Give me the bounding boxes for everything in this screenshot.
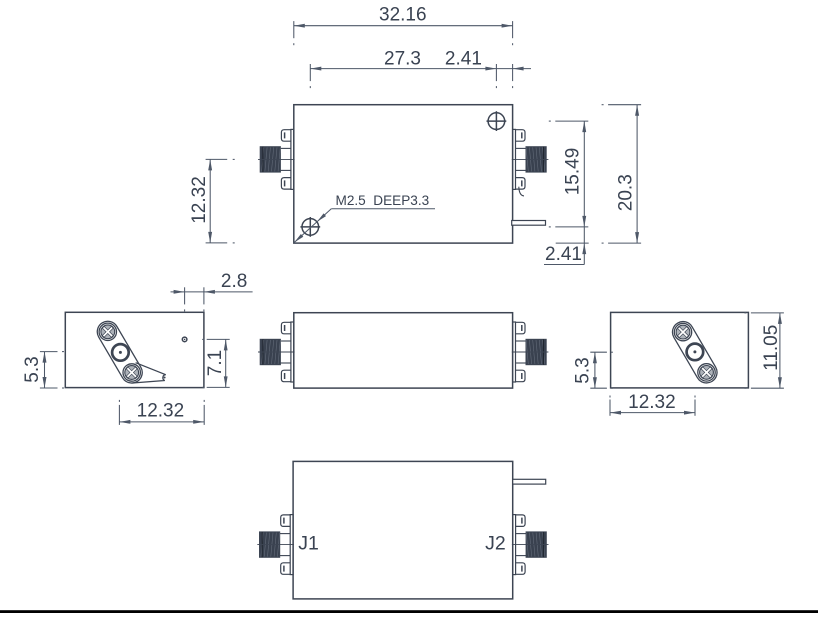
svg-text:J1: J1 bbox=[298, 532, 319, 554]
screw bottom (left side view) bbox=[123, 363, 141, 381]
dimension 20.3 bbox=[602, 105, 642, 243]
dimension 12.32 (top view) bbox=[189, 159, 235, 243]
svg-text:32.16: 32.16 bbox=[379, 4, 427, 25]
dimension 12.32 (left view) bbox=[119, 400, 204, 425]
svg-text:12.32: 12.32 bbox=[628, 392, 676, 413]
connector J2 (top view right) bbox=[512, 129, 549, 196]
svg-text:2.41: 2.41 bbox=[445, 49, 482, 70]
dimension 2.41 (right, vertical) bbox=[544, 227, 589, 265]
bottom view body bbox=[293, 461, 513, 599]
pin (top view) bbox=[512, 221, 546, 226]
connector J1 (bottom view) bbox=[257, 515, 294, 575]
bracket outline (right side view) bbox=[672, 322, 717, 383]
connector J2 (bottom view) bbox=[512, 515, 549, 575]
boss (left side view) bbox=[112, 344, 129, 361]
left side view body bbox=[65, 312, 204, 387]
svg-text:2.41: 2.41 bbox=[545, 244, 582, 265]
screw top (right side view) bbox=[674, 323, 692, 341]
pin (bottom view) bbox=[513, 479, 546, 484]
pin hole (left side view) bbox=[182, 337, 187, 342]
dimension 15.49 bbox=[549, 121, 589, 227]
dimension 32.16 bbox=[294, 4, 513, 45]
bracket outline (left side view) bbox=[97, 321, 142, 383]
bracket arm (left side view) bbox=[133, 363, 166, 383]
dimension 5.3 (right view) bbox=[573, 352, 613, 388]
svg-text:27.3: 27.3 bbox=[384, 49, 421, 70]
svg-text:M2.5 DEEP3.3: M2.5 DEEP3.3 bbox=[336, 193, 430, 208]
svg-text:5.3: 5.3 bbox=[573, 357, 594, 383]
svg-text:12.32: 12.32 bbox=[189, 176, 210, 224]
right side view body bbox=[611, 312, 749, 388]
top view body bbox=[294, 105, 513, 243]
screw hole bottom-left bbox=[300, 217, 320, 237]
dimension 2.8 bbox=[171, 271, 253, 311]
front view body bbox=[294, 313, 513, 388]
svg-text:J2: J2 bbox=[485, 532, 506, 554]
svg-text:2.8: 2.8 bbox=[221, 271, 247, 292]
dimension 5.3 (left view) bbox=[22, 352, 64, 388]
svg-text:7.1: 7.1 bbox=[205, 350, 226, 376]
dimension 11.05 bbox=[744, 313, 784, 388]
boss (right side view) bbox=[687, 344, 704, 361]
svg-text:5.3: 5.3 bbox=[22, 356, 43, 382]
screw top (left side view) bbox=[99, 323, 117, 341]
svg-text:15.49: 15.49 bbox=[563, 148, 584, 196]
dimension 27.3 bbox=[310, 49, 496, 89]
screw bottom (right side view) bbox=[697, 363, 715, 381]
svg-text:11.05: 11.05 bbox=[761, 325, 782, 371]
svg-text:20.3: 20.3 bbox=[616, 174, 637, 211]
connector (front view right) bbox=[512, 322, 549, 382]
dimension 12.32 (right view) bbox=[610, 392, 695, 416]
dimension 2.41 (top) bbox=[445, 49, 531, 89]
connector (front view left) bbox=[258, 322, 295, 382]
connector J1 (top view left) bbox=[258, 129, 295, 189]
screw hole top-right bbox=[487, 111, 507, 131]
footer bar bbox=[0, 610, 818, 613]
dimension 7.1 bbox=[202, 339, 230, 387]
svg-text:12.32: 12.32 bbox=[137, 400, 185, 421]
leader M2.5 DEEP3.3 bbox=[294, 193, 435, 243]
